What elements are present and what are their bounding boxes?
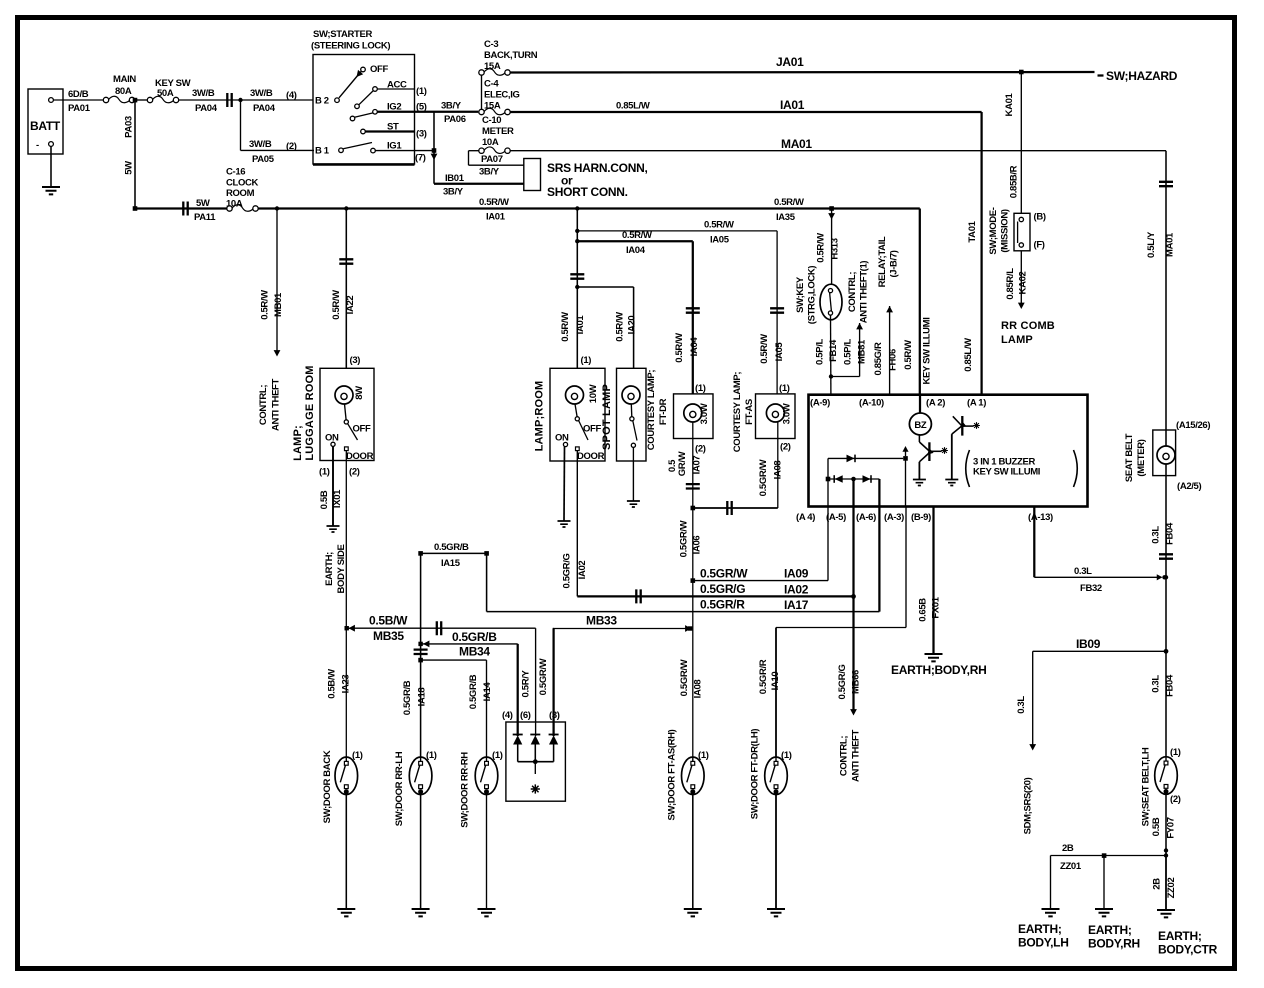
ground EARTH;BODY,RH bottom bbox=[1088, 909, 1140, 951]
wire 0.5B/W MB35 bbox=[345, 614, 536, 737]
svg-text:MB81: MB81 bbox=[857, 339, 868, 364]
switch SW;DOOR FT-DR(LH) bbox=[750, 729, 792, 909]
svg-text:FY07: FY07 bbox=[1166, 817, 1177, 838]
svg-text:(MISSION): (MISSION) bbox=[1000, 209, 1011, 252]
svg-text:IA22: IA22 bbox=[345, 296, 356, 315]
svg-text:EARTH;: EARTH; bbox=[1088, 923, 1132, 937]
label 3 IN 1 BUZZER KEY SW ILLUMI bbox=[966, 450, 1078, 487]
svg-text:IA20: IA20 bbox=[627, 316, 638, 335]
switch SW;DOOR BACK bbox=[322, 669, 363, 909]
svg-text:(A-5): (A-5) bbox=[826, 512, 846, 523]
svg-text:0.85L/W: 0.85L/W bbox=[616, 101, 650, 112]
wire labels 0.5GR/B IA18 bbox=[402, 680, 428, 715]
svg-text:EARTH;: EARTH; bbox=[324, 552, 335, 586]
ground spot lamp bbox=[627, 501, 640, 507]
svg-text:LAMP;: LAMP; bbox=[292, 425, 304, 461]
svg-text:(1): (1) bbox=[779, 383, 790, 394]
node IA09 junction bbox=[691, 578, 696, 583]
svg-text:(1): (1) bbox=[695, 383, 706, 394]
wire 0.5B IX01 to earth bbox=[319, 446, 343, 526]
svg-text:(STEERING LOCK): (STEERING LOCK) bbox=[311, 41, 390, 52]
wire lamp room ON to earth bbox=[563, 447, 566, 521]
wire IG1 (7) bbox=[375, 150, 434, 152]
svg-text:(J-B/7): (J-B/7) bbox=[889, 250, 900, 277]
svg-text:IA09: IA09 bbox=[784, 567, 809, 581]
svg-text:IA05: IA05 bbox=[710, 235, 730, 246]
svg-text:IA04: IA04 bbox=[626, 245, 646, 256]
ground Q2 bbox=[945, 480, 958, 486]
svg-text:MB66: MB66 bbox=[851, 670, 862, 694]
wire IB01 3B/Y bbox=[434, 173, 524, 198]
wire IG2 (5) to fuse C-4 bbox=[377, 111, 478, 113]
svg-text:EARTH;BODY,RH: EARTH;BODY,RH bbox=[891, 663, 986, 677]
node bus junction SW KEY bbox=[829, 206, 834, 211]
wire 0.5GR/W IA06 down bbox=[679, 508, 703, 757]
svg-text:C-10: C-10 bbox=[482, 115, 501, 126]
svg-text:ANTI THEFT(1): ANTI THEFT(1) bbox=[859, 261, 870, 324]
ground EARTH;BODY,CTR bbox=[1157, 910, 1218, 957]
svg-text:TA01: TA01 bbox=[967, 220, 978, 242]
svg-text:IA02: IA02 bbox=[577, 561, 588, 580]
node IB09 junction bbox=[1164, 649, 1169, 654]
ground door back bbox=[337, 909, 355, 916]
wire 3W/B PA04 bbox=[179, 88, 313, 114]
svg-text:3W/B: 3W/B bbox=[192, 88, 215, 99]
svg-text:(2): (2) bbox=[695, 444, 706, 455]
svg-text:PA07: PA07 bbox=[481, 154, 503, 165]
node bus junction MB01 bbox=[275, 206, 279, 210]
switch SW;DOOR FT-AS(RH) bbox=[667, 659, 709, 909]
svg-text:(METER): (METER) bbox=[1136, 439, 1147, 476]
svg-text:RR COMB: RR COMB bbox=[1001, 320, 1055, 332]
svg-text:B 2: B 2 bbox=[315, 96, 329, 107]
svg-text:IA02: IA02 bbox=[784, 583, 809, 597]
svg-text:MB01: MB01 bbox=[273, 292, 284, 317]
svg-text:(2): (2) bbox=[286, 141, 297, 152]
svg-text:3W/B: 3W/B bbox=[250, 88, 273, 99]
svg-text:COURTESY LAMP;: COURTESY LAMP; bbox=[732, 372, 743, 453]
svg-text:0.5GR/B: 0.5GR/B bbox=[468, 674, 479, 709]
svg-text:8W: 8W bbox=[354, 386, 365, 400]
svg-text:(A15/26): (A15/26) bbox=[1176, 420, 1210, 431]
svg-text:MB35: MB35 bbox=[373, 629, 404, 643]
node bus junction IA22 bbox=[344, 206, 348, 210]
svg-text:MB34: MB34 bbox=[459, 645, 490, 659]
wire 0.85R/L KA02 to RR COMB LAMP bbox=[1001, 251, 1055, 346]
node IG1 junction bbox=[432, 148, 437, 153]
svg-text:(A-9): (A-9) bbox=[810, 398, 830, 409]
wire A-5 pin bbox=[852, 479, 854, 507]
svg-text:(A-3): (A-3) bbox=[884, 512, 904, 523]
svg-text:(4): (4) bbox=[286, 90, 297, 101]
wire 0.5GR/B MB34 to diode (4) bbox=[418, 630, 517, 736]
svg-text:PA01: PA01 bbox=[68, 103, 91, 114]
svg-text:BODY,LH: BODY,LH bbox=[1018, 936, 1069, 950]
svg-text:0.5GR/W: 0.5GR/W bbox=[700, 567, 748, 581]
switch SW;KEY (STRG,LOCK) bbox=[795, 266, 842, 325]
svg-text:6D/B: 6D/B bbox=[68, 89, 89, 100]
svg-text:ANTI THEFT: ANTI THEFT bbox=[851, 730, 862, 782]
svg-text:FT-DR: FT-DR bbox=[658, 398, 669, 425]
svg-text:IB09: IB09 bbox=[1076, 637, 1101, 651]
svg-text:EARTH;: EARTH; bbox=[1018, 922, 1062, 936]
svg-text:SEAT BELT: SEAT BELT bbox=[1124, 433, 1135, 482]
wire 0.5P/L MB81 CONTRL ANTI THEFT(1) bbox=[815, 261, 870, 377]
svg-text:LAMP;ROOM: LAMP;ROOM bbox=[534, 381, 546, 452]
ECU 3 IN 1 BUZZER box bbox=[796, 395, 1088, 523]
wire 3W/B PA04 (4) bbox=[250, 88, 297, 114]
svg-text:(1): (1) bbox=[492, 750, 503, 761]
ground door RR-LH bbox=[412, 909, 430, 916]
svg-text:3.0W: 3.0W bbox=[699, 403, 710, 424]
svg-text:IA06: IA06 bbox=[692, 536, 703, 555]
svg-text:ON: ON bbox=[555, 433, 569, 444]
wire 0.5B FY07 bbox=[1151, 792, 1177, 858]
svg-text:0.5R/Y: 0.5R/Y bbox=[521, 670, 532, 698]
wire seat belt feed lower bbox=[1151, 464, 1176, 758]
svg-text:C-16: C-16 bbox=[226, 167, 245, 178]
svg-text:(3): (3) bbox=[350, 355, 361, 366]
svg-text:OFF: OFF bbox=[353, 424, 371, 435]
svg-text:(2): (2) bbox=[349, 467, 360, 478]
svg-text:(A-6): (A-6) bbox=[856, 512, 876, 523]
wire 0.5GR/G IA02 bbox=[562, 451, 854, 604]
svg-text:ELEC,IG: ELEC,IG bbox=[484, 90, 520, 101]
svg-text:SW;DOOR FT-AS(RH): SW;DOOR FT-AS(RH) bbox=[667, 729, 678, 820]
svg-text:0.5GR/B: 0.5GR/B bbox=[402, 680, 413, 715]
node IA02-A5 junction bbox=[851, 594, 856, 599]
svg-text:(B-9): (B-9) bbox=[911, 512, 931, 523]
svg-text:IA04: IA04 bbox=[689, 337, 700, 357]
svg-text:IA35: IA35 bbox=[776, 212, 796, 223]
svg-text:OFF: OFF bbox=[370, 64, 388, 75]
ground EARTH;BODY,LH bbox=[1018, 909, 1069, 950]
svg-text:3B/Y: 3B/Y bbox=[479, 167, 500, 178]
wire labels 0.3L FB04 lower bbox=[1151, 674, 1176, 697]
svg-text:CLOCK: CLOCK bbox=[226, 178, 259, 189]
svg-text:(7): (7) bbox=[415, 153, 426, 164]
svg-text:PA05: PA05 bbox=[252, 154, 275, 165]
fuse MAIN 80A bbox=[103, 74, 136, 103]
switch SW;MODE-(MISSION) bbox=[988, 207, 1046, 254]
wire 0.5R/W H313 to SW KEY bbox=[816, 209, 841, 286]
ground battery bbox=[42, 187, 60, 194]
wire SW KEY to A-9 bbox=[830, 315, 832, 395]
svg-text:0.5R/W: 0.5R/W bbox=[622, 230, 652, 241]
svg-text:0.5R/W: 0.5R/W bbox=[260, 290, 271, 320]
svg-text:(A 1): (A 1) bbox=[967, 398, 986, 409]
wire IA15 right drop to IA17 bbox=[486, 553, 488, 611]
wire link C-3 to C-4 bbox=[481, 75, 483, 109]
wire B-9 0.65B FX01 to earth bbox=[918, 507, 942, 655]
svg-text:50A: 50A bbox=[157, 88, 174, 99]
svg-text:SW;DOOR BACK: SW;DOOR BACK bbox=[322, 750, 333, 823]
node B2 junction bbox=[238, 98, 242, 102]
svg-text:SW;DOOR RR-LH: SW;DOOR RR-LH bbox=[394, 751, 405, 826]
svg-text:(2): (2) bbox=[1170, 794, 1181, 805]
svg-text:OFF: OFF bbox=[583, 424, 601, 435]
svg-text:3W/B: 3W/B bbox=[249, 139, 272, 150]
wire labels 0.5L/Y MA01 bbox=[1146, 231, 1176, 258]
svg-text:KEY SW ILLUMI: KEY SW ILLUMI bbox=[973, 467, 1040, 478]
svg-text:ROOM: ROOM bbox=[226, 188, 255, 199]
svg-text:(6): (6) bbox=[520, 710, 531, 721]
svg-text:0.5R/W: 0.5R/W bbox=[903, 340, 914, 370]
svg-text:SW;KEY: SW;KEY bbox=[795, 276, 806, 313]
wire IA01 drop x577 bbox=[560, 209, 586, 369]
transistor Q2 bbox=[952, 416, 980, 479]
wire A-6 pin bbox=[878, 479, 880, 507]
svg-text:0.3L: 0.3L bbox=[1074, 566, 1092, 577]
wire 0.5R/W IA22 bbox=[331, 209, 356, 369]
svg-text:IA23: IA23 bbox=[341, 675, 352, 694]
svg-text:0.65B: 0.65B bbox=[918, 598, 929, 622]
connector on left drop bbox=[414, 650, 428, 654]
wire diode commons bbox=[518, 745, 554, 775]
svg-text:C-3: C-3 bbox=[484, 39, 498, 50]
switch SW;DOOR RR-RH bbox=[460, 750, 503, 909]
svg-text:0.5B/W: 0.5B/W bbox=[327, 669, 338, 699]
svg-text:IA05: IA05 bbox=[774, 342, 785, 362]
svg-text:FH06: FH06 bbox=[888, 349, 899, 371]
switch SW;SEAT BELT,LH bbox=[1141, 747, 1181, 826]
svg-text:0.5B: 0.5B bbox=[319, 490, 330, 509]
svg-text:IA18: IA18 bbox=[417, 688, 428, 707]
svg-text:10W: 10W bbox=[588, 384, 599, 403]
svg-text:SW;STARTER: SW;STARTER bbox=[313, 29, 372, 40]
svg-text:BATT: BATT bbox=[30, 119, 61, 133]
wire A-3 pin bbox=[905, 458, 907, 506]
node FB32 junction bbox=[1164, 575, 1168, 579]
diode D1 bbox=[513, 735, 523, 745]
svg-text:2B: 2B bbox=[1062, 843, 1074, 854]
svg-text:0.5R/W: 0.5R/W bbox=[774, 197, 804, 208]
wire 3B/Y PA06 vertical bbox=[434, 101, 466, 184]
wire 2B ZZ01 bbox=[1051, 843, 1167, 909]
svg-text:SW;DOOR RR-RH: SW;DOOR RR-RH bbox=[460, 752, 471, 828]
svg-text:SPOT LAMP: SPOT LAMP bbox=[601, 384, 613, 450]
battery BATT bbox=[28, 89, 63, 154]
svg-text:IA17: IA17 bbox=[784, 598, 809, 612]
wire IA15 left drop to RR-LH bbox=[420, 553, 422, 757]
svg-text:IA07: IA07 bbox=[692, 456, 703, 475]
node ZZ01 mid junction bbox=[1102, 853, 1107, 858]
wire MA01 bbox=[510, 137, 1166, 447]
svg-text:(A2/5): (A2/5) bbox=[1177, 481, 1201, 492]
svg-text:(2): (2) bbox=[780, 442, 791, 453]
svg-text:LAMP: LAMP bbox=[1001, 334, 1033, 346]
svg-text:METER: METER bbox=[482, 126, 514, 137]
svg-text:0.5L/Y: 0.5L/Y bbox=[1146, 231, 1157, 258]
wire 0.85L/W IA01 bbox=[510, 98, 981, 395]
diode pack box bbox=[502, 710, 565, 801]
wire ACC (1) bbox=[377, 88, 414, 90]
svg-text:SW;SEAT BELT,LH: SW;SEAT BELT,LH bbox=[1141, 747, 1152, 826]
svg-text:ZZ01: ZZ01 bbox=[1060, 861, 1082, 872]
node MB81 junction bbox=[829, 374, 833, 378]
svg-text:0.5R/W: 0.5R/W bbox=[674, 333, 685, 363]
svg-text:KA02: KA02 bbox=[1018, 271, 1029, 294]
svg-text:COURTESY LAMP;: COURTESY LAMP; bbox=[646, 370, 657, 451]
svg-text:80A: 80A bbox=[115, 86, 132, 97]
svg-text:MB33: MB33 bbox=[586, 614, 617, 628]
svg-text:PA06: PA06 bbox=[444, 114, 466, 125]
svg-text:FX01: FX01 bbox=[931, 596, 942, 618]
svg-text:3B/Y: 3B/Y bbox=[441, 101, 462, 112]
svg-text:5W: 5W bbox=[124, 161, 135, 175]
lamp SPOT LAMP box bbox=[601, 368, 646, 461]
wire 6D/B PA01 bbox=[53, 89, 103, 114]
svg-text:0.5R/W: 0.5R/W bbox=[479, 197, 509, 208]
diode D3 bbox=[549, 735, 559, 745]
svg-text:0.5P/L: 0.5P/L bbox=[843, 339, 854, 365]
svg-text:(1): (1) bbox=[319, 467, 330, 478]
switch SW;DOOR RR-LH bbox=[394, 750, 437, 909]
svg-text:PA04: PA04 bbox=[253, 103, 276, 114]
svg-text:FT-AS: FT-AS bbox=[744, 399, 755, 425]
svg-text:(4): (4) bbox=[502, 710, 513, 721]
svg-text:0.5R/W: 0.5R/W bbox=[331, 290, 342, 320]
svg-text:(1): (1) bbox=[416, 86, 427, 97]
svg-text:IX01: IX01 bbox=[332, 489, 343, 508]
wire 0.5GR/B IA14 to RR-RH bbox=[421, 660, 493, 757]
svg-text:0.5P/L: 0.5P/L bbox=[815, 339, 826, 365]
transistor Q1 bbox=[919, 435, 947, 479]
svg-text:IA01: IA01 bbox=[486, 212, 506, 223]
node JA01-KA01 junction bbox=[1019, 70, 1024, 75]
svg-text:0.5GR/W: 0.5GR/W bbox=[758, 459, 769, 496]
node IA14 junction bbox=[418, 658, 423, 663]
wire B1 drop 3W/B PA05 (2) bbox=[241, 100, 315, 165]
svg-text:(A 4): (A 4) bbox=[796, 512, 815, 523]
wire PA07 3B/Y link bbox=[469, 151, 524, 178]
svg-text:IG1: IG1 bbox=[387, 141, 402, 152]
svg-text:KA01: KA01 bbox=[1004, 92, 1015, 116]
wire 0.5R/W MB01 CONTRL ANTI THEFT bbox=[258, 209, 284, 431]
svg-text:FB32: FB32 bbox=[1080, 583, 1102, 594]
svg-text:15A: 15A bbox=[484, 101, 501, 112]
svg-text:MA01: MA01 bbox=[781, 137, 812, 151]
svg-text:0.3L: 0.3L bbox=[1151, 526, 1162, 544]
svg-text:(A-10): (A-10) bbox=[859, 398, 884, 409]
svg-text:EARTH;: EARTH; bbox=[1158, 929, 1202, 943]
buzzer BZ bbox=[909, 395, 931, 435]
node bus junction IA01 drop bbox=[575, 206, 579, 210]
lamp LAMP;ROOM box bbox=[534, 355, 606, 462]
svg-text:BODY,RH: BODY,RH bbox=[1088, 937, 1140, 951]
svg-text:PA03: PA03 bbox=[124, 116, 135, 138]
wire IB09 bbox=[1016, 637, 1166, 751]
ground EARTH;BODY,RH bbox=[891, 654, 986, 677]
svg-text:IA15: IA15 bbox=[441, 558, 461, 569]
svg-text:(1): (1) bbox=[581, 355, 592, 366]
connector PA04 bbox=[227, 93, 231, 107]
svg-text:(3): (3) bbox=[549, 710, 560, 721]
svg-text:LUGGAGE ROOM: LUGGAGE ROOM bbox=[304, 365, 316, 460]
wire FT-AS pin2 0.5GR/W IA08 bbox=[693, 422, 784, 515]
fuse C-3 BACK,TURN 15A bbox=[479, 39, 538, 75]
wire 0.5R/W IA04 to courtesy FT-DR bbox=[577, 230, 700, 394]
svg-text:IA08: IA08 bbox=[693, 680, 704, 699]
ground EARTH BODY SIDE bbox=[324, 526, 347, 593]
wire A-4 pin bbox=[827, 479, 829, 507]
wire 0.5GR/B IA15 bbox=[418, 542, 489, 569]
svg-text:0.5R/W: 0.5R/W bbox=[704, 220, 734, 231]
wire luggage pin2 down bbox=[346, 451, 359, 757]
svg-text:(3): (3) bbox=[416, 129, 427, 140]
svg-text:IA08: IA08 bbox=[773, 461, 784, 480]
wire spot lamp to earth bbox=[632, 461, 634, 501]
connector SRS HARN.CONN or SHORT CONN box bbox=[524, 159, 648, 200]
node bus left junction bbox=[133, 206, 138, 211]
wire RELAY;TAIL to A-10 bbox=[873, 236, 900, 395]
svg-text:CONTRL;: CONTRL; bbox=[839, 736, 850, 776]
svg-text:ON: ON bbox=[325, 433, 339, 444]
svg-text:MA01: MA01 bbox=[1165, 232, 1176, 257]
connector PA11 bbox=[183, 198, 216, 223]
svg-text:IA10: IA10 bbox=[770, 672, 781, 691]
svg-text:(A 2): (A 2) bbox=[926, 398, 945, 409]
svg-text:0.5GR/B: 0.5GR/B bbox=[452, 630, 497, 644]
svg-text:2B: 2B bbox=[1152, 878, 1163, 890]
svg-text:BZ: BZ bbox=[914, 420, 927, 431]
ground door FT-AS bbox=[684, 909, 702, 916]
svg-text:BODY,CTR: BODY,CTR bbox=[1158, 943, 1218, 957]
node FT-DR pin2 junction bbox=[691, 506, 696, 511]
meter SEAT BELT (METER) box bbox=[1124, 420, 1210, 492]
svg-text:DOOR: DOOR bbox=[577, 451, 605, 462]
diode row upper bbox=[828, 446, 909, 479]
svg-text:ANTI THEFT: ANTI THEFT bbox=[271, 379, 282, 431]
wire 0.5R/W IA05 to courtesy FT-AS bbox=[577, 220, 785, 394]
svg-text:(1): (1) bbox=[1170, 747, 1181, 758]
wire 0.5R/W IA20 to spot lamp bbox=[577, 287, 637, 368]
fuse C-10 METER 10A bbox=[479, 115, 514, 153]
svg-text:IA14: IA14 bbox=[482, 682, 493, 702]
svg-text:(F): (F) bbox=[1034, 240, 1045, 251]
svg-text:0.5GR/R: 0.5GR/R bbox=[758, 659, 769, 694]
svg-text:SW;DOOR FT-DR(LH): SW;DOOR FT-DR(LH) bbox=[750, 729, 761, 820]
svg-text:0.85L/W: 0.85L/W bbox=[963, 338, 974, 372]
svg-text:ZZ02: ZZ02 bbox=[1166, 878, 1177, 899]
svg-text:0.5R/W: 0.5R/W bbox=[615, 312, 626, 342]
svg-text:0.3L: 0.3L bbox=[1151, 675, 1162, 693]
svg-text:BODY SIDE: BODY SIDE bbox=[336, 545, 347, 594]
svg-text:DOOR: DOOR bbox=[346, 451, 374, 462]
fuse C-16 CLOCK ROOM 10A bbox=[226, 167, 259, 212]
junction arrow down bbox=[431, 154, 438, 160]
ground door FT-DR bbox=[767, 909, 785, 916]
node PA03 junction bbox=[133, 98, 138, 103]
fuse C-4 ELEC,IG 15A bbox=[479, 79, 520, 115]
svg-text:0.5R/W: 0.5R/W bbox=[759, 334, 770, 364]
wire A-5 to MB66 CONTRL ANTI THEFT bbox=[837, 507, 862, 782]
svg-text:0.5GR/W: 0.5GR/W bbox=[679, 659, 690, 696]
wire main bus 0.5R/W IA01 bbox=[135, 197, 920, 223]
wire MB33 bbox=[553, 614, 693, 632]
svg-text:(1): (1) bbox=[698, 750, 709, 761]
svg-text:(STRG,LOCK): (STRG,LOCK) bbox=[807, 266, 818, 325]
svg-text:0.5GR/W: 0.5GR/W bbox=[679, 520, 690, 557]
wire A-13 0.3L FB32 bbox=[1034, 507, 1166, 595]
wire 0.5GR/W to diode (3) bbox=[538, 629, 554, 737]
svg-text:RELAY;TAIL: RELAY;TAIL bbox=[877, 236, 888, 287]
wire PA03 5W vertical bbox=[124, 100, 136, 209]
wire A-3 route to 0.5GR/R IA10 FT-DR bbox=[758, 507, 906, 758]
svg-text:15A: 15A bbox=[484, 61, 501, 72]
wire KEY SW ILLUMI drop to A-2 bbox=[903, 209, 933, 395]
svg-text:3B/Y: 3B/Y bbox=[443, 187, 464, 198]
